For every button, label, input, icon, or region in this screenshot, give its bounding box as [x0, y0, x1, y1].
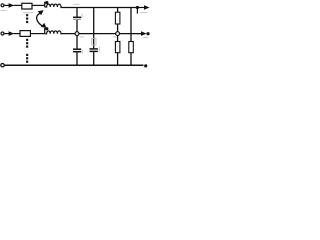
ghost near N2: [113, 36, 117, 38]
wire: [76, 52, 78, 65]
branch x=93.5: wire from top rail through middle rail: [93, 8, 95, 49]
ghost tick right of C1: [81, 13, 83, 17]
capacitor C3 plates: [90, 48, 98, 50]
wire: [117, 24, 119, 32]
polarity dot (bottom winding): [45, 27, 48, 30]
wire: [14, 33, 21, 35]
ellipsis dots (below R2): [26, 39, 28, 41]
bottom terminal (lower left): [1, 63, 4, 66]
ghost line under R1: [23, 12, 33, 14]
winding lead tick (top): [44, 2, 46, 7]
bottom rail end dot: [144, 64, 147, 67]
top rail junction dot: [136, 6, 139, 9]
output arrow (middle): [137, 33, 142, 35]
output arrow (top): [139, 7, 145, 9]
stub below junction dot: [136, 9, 138, 14]
branch x=117.5: lead from top rail: [117, 8, 119, 13]
ghost line under terminal 1: [1, 10, 7, 12]
wire: [30, 33, 44, 35]
ellipsis dots (between row1 and row2): [26, 14, 28, 16]
ghost box on branch: [92, 38, 96, 45]
capacitor C1 top plate: [73, 16, 81, 18]
wire: [4, 4, 9, 6]
branch x=131: wire from top rail crossing middle rail: [130, 8, 132, 42]
inductor L2 (bottom winding): [45, 31, 62, 34]
wire: [117, 53, 119, 65]
input terminal 2 (middle left): [1, 32, 4, 35]
wire: [130, 53, 132, 65]
capacitor C2 plates: [73, 48, 81, 50]
wire: [117, 36, 119, 42]
arrow (input 2): [9, 31, 15, 36]
arrow (input 1): [9, 3, 15, 8]
ghost tick right of C2: [81, 50, 83, 54]
bottom rail: [4, 64, 143, 66]
ghost tick right of C3: [99, 46, 101, 51]
ghost near N1: [80, 36, 84, 38]
wire: [76, 20, 78, 32]
winding lead tick (bottom): [44, 28, 46, 34]
coupling arrow (curved, double-headed): [37, 13, 45, 27]
middle output end dot: [146, 32, 149, 35]
resistor R1 (series, row 1): [22, 3, 32, 9]
input terminal 1 (top left): [1, 4, 4, 7]
resistor R3 (vertical): [115, 12, 120, 24]
ellipsis dots (above bottom rail): [26, 54, 28, 56]
node circle N1: [75, 32, 79, 36]
branch x=77: upper lead: [76, 8, 78, 17]
wire: [32, 4, 45, 6]
capacitor C1 bottom plate (faint): [73, 18, 81, 20]
node circle N2: [116, 32, 120, 36]
ghost above top rail near x=77: [74, 3, 80, 5]
resistor R4 (vertical): [115, 42, 120, 53]
ghost line right of stub: [140, 12, 148, 14]
wire: [4, 33, 9, 35]
middle rail: [61, 33, 142, 35]
resistor R2 (series, row 2): [20, 31, 30, 37]
polarity dot (top winding): [45, 1, 48, 4]
inductor L1 (top winding): [45, 4, 62, 7]
wire: [14, 4, 22, 6]
top rail: [61, 7, 139, 9]
wire: [76, 36, 78, 49]
ghost under middle arrow: [143, 37, 148, 39]
wire: [93, 52, 95, 65]
resistor R5 (vertical): [129, 42, 134, 53]
